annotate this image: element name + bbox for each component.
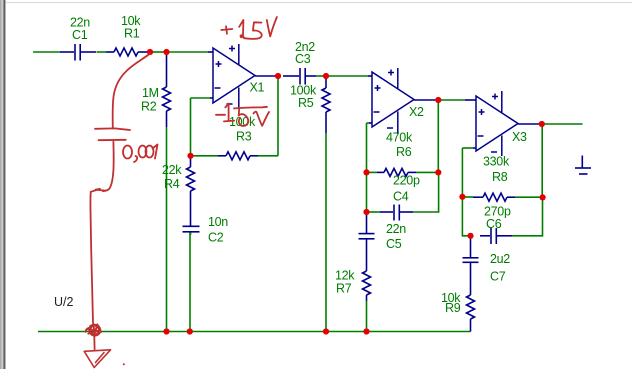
wire R3 left xyxy=(191,155,219,157)
wire C2 bottom to rail xyxy=(189,233,191,332)
svg-text:R9: R9 xyxy=(445,301,461,315)
junction node X3 output xyxy=(539,121,545,127)
wire X2 -in down to R6 xyxy=(366,123,368,172)
junction node X1 output xyxy=(275,73,281,79)
svg-text:R7: R7 xyxy=(336,282,352,296)
wire X2 out column to C4 corner xyxy=(413,172,439,212)
annotation +15V xyxy=(221,17,277,39)
wire R2 bottom to rail xyxy=(166,127,168,332)
wire X2 out to X3 +in xyxy=(438,99,465,101)
junction node R8 left xyxy=(459,194,465,200)
wire R6 right stub xyxy=(416,171,439,173)
wire X1 feedback vertical xyxy=(190,98,192,156)
svg-text:X2: X2 xyxy=(409,105,424,119)
junction node R5 top xyxy=(323,73,329,79)
wire X3 -in stub xyxy=(462,147,473,149)
wire X3 output right xyxy=(542,123,583,125)
svg-text:U/2: U/2 xyxy=(54,295,74,309)
capacitor C6 xyxy=(480,228,512,244)
wire C1 to R1 xyxy=(97,51,107,53)
capacitor C4 xyxy=(380,205,413,221)
wire R1 to node xyxy=(151,51,166,53)
svg-text:R2: R2 xyxy=(141,100,157,114)
wire C3 to node xyxy=(316,75,326,77)
wire R8 left stub xyxy=(462,196,473,198)
junction node R1 output xyxy=(147,49,153,55)
svg-text:R1: R1 xyxy=(124,27,140,41)
wire X3 -in down to R8 xyxy=(461,148,463,197)
junction rail C2 xyxy=(187,328,193,334)
wire R8 right node down to C6 corner xyxy=(512,197,543,236)
capacitor C3 xyxy=(283,68,316,85)
pin X2 +in stub xyxy=(368,75,372,77)
svg-text:10n: 10n xyxy=(208,215,228,229)
svg-text:R6: R6 xyxy=(396,145,412,159)
wire X2 out down to R6 xyxy=(437,100,439,172)
svg-text:220p: 220p xyxy=(393,174,420,188)
capacitor C7 xyxy=(463,238,479,295)
svg-text:C1: C1 xyxy=(72,28,88,42)
capacitor C2 xyxy=(183,226,200,235)
wire X2 -in stub xyxy=(367,122,370,124)
svg-text:C2: C2 xyxy=(208,231,224,245)
junction node X1 -in / R3 / R4 xyxy=(187,153,193,159)
annotation red speck xyxy=(123,363,125,365)
annotation hand capacitor plate bottom xyxy=(99,139,126,141)
resistor R1 xyxy=(106,48,148,56)
junction node X2 output xyxy=(435,97,441,103)
wire ground rail xyxy=(38,331,471,333)
svg-text:470k: 470k xyxy=(386,131,413,145)
svg-text:C4: C4 xyxy=(393,190,409,204)
pin X2 -in stub xyxy=(369,122,372,124)
pin X3 +in stub xyxy=(465,99,476,101)
svg-text:330k: 330k xyxy=(483,155,510,169)
svg-text:C3: C3 xyxy=(295,52,311,66)
annotation scribble blob at rail xyxy=(86,324,102,336)
annotation stem to ground xyxy=(93,337,95,350)
op-amp X3 xyxy=(476,91,518,156)
svg-text:R5: R5 xyxy=(298,96,314,110)
wire R8 right stub xyxy=(515,196,543,198)
pin X1 -in stub xyxy=(210,97,213,99)
svg-text:C7: C7 xyxy=(490,270,506,284)
svg-text:22k: 22k xyxy=(162,163,182,177)
svg-text:C6: C6 xyxy=(486,217,502,231)
wire R6 node down to C4 node xyxy=(366,172,368,214)
resistor R6 xyxy=(377,168,416,176)
wire C4 left stub xyxy=(367,211,381,213)
svg-text:R4: R4 xyxy=(164,177,180,191)
svg-text:22n: 22n xyxy=(386,222,406,236)
wire input left xyxy=(33,51,60,53)
wire feedback up to X1 output xyxy=(277,76,279,156)
annotation hand capacitor plate top xyxy=(95,128,130,130)
annotation red wire down to rail xyxy=(90,192,93,323)
wire R7 bottom to rail xyxy=(366,301,368,332)
resistor R8 xyxy=(473,193,515,201)
wire R6 left stub xyxy=(367,171,378,173)
resistor R4 xyxy=(187,158,195,226)
junction rail R5 xyxy=(323,328,329,334)
pin X3 -in stub xyxy=(473,147,476,149)
wire X3 out down to R8 xyxy=(541,124,543,197)
window border left strip xyxy=(0,0,6,369)
resistor R9 xyxy=(467,295,475,332)
wire X3 output xyxy=(518,123,542,125)
annotation -15V xyxy=(216,104,269,126)
ground symbol xyxy=(575,156,591,175)
op-amp X1 xyxy=(213,44,255,108)
annotation hand ground triangle xyxy=(84,350,110,368)
junction rail R2 xyxy=(163,328,169,334)
pin X1 +in stub xyxy=(208,51,213,53)
wire R8 node down to C6 jog xyxy=(462,197,470,236)
svg-text:2u2: 2u2 xyxy=(490,252,510,266)
annotation red wire below capacitor xyxy=(103,142,114,192)
capacitor C5 xyxy=(359,214,375,271)
wire X1 output xyxy=(255,75,281,77)
junction node C6 left / C7 top xyxy=(467,233,473,239)
resistor R7 xyxy=(363,271,371,301)
resistor R5 xyxy=(322,78,330,133)
op-amp X2 xyxy=(372,68,414,134)
wire R5 bottom to rail xyxy=(325,133,327,332)
wire node to X2 +in xyxy=(326,75,368,77)
wire X1 -in stub xyxy=(191,97,211,99)
resistor R2 xyxy=(163,54,171,127)
annotation red wire from node to hand capacitor xyxy=(113,54,150,128)
svg-text:X1: X1 xyxy=(250,81,265,95)
resistor R3 xyxy=(218,152,258,160)
svg-text:12k: 12k xyxy=(335,269,355,283)
wire node to X1 +in xyxy=(166,51,208,53)
capacitor C1 xyxy=(60,44,96,61)
junction node R6 right xyxy=(435,169,441,175)
annotation scribble jog xyxy=(91,189,106,192)
annotation value 0,001 xyxy=(123,145,158,163)
svg-text:1M: 1M xyxy=(142,86,159,100)
wire R3 right xyxy=(258,155,278,157)
svg-text:X3: X3 xyxy=(512,130,527,144)
junction node R2 top xyxy=(163,49,169,55)
junction node R8 right xyxy=(540,194,546,200)
svg-text:R8: R8 xyxy=(492,170,508,184)
svg-text:R3: R3 xyxy=(236,130,252,144)
junction node R6 left xyxy=(363,169,369,175)
wire X2 output xyxy=(414,99,438,101)
junction node C4 left xyxy=(363,209,369,215)
junction rail R7 xyxy=(363,328,369,334)
svg-text:100k: 100k xyxy=(229,115,256,129)
window border top line xyxy=(6,2,632,3)
svg-text:C5: C5 xyxy=(386,237,402,251)
